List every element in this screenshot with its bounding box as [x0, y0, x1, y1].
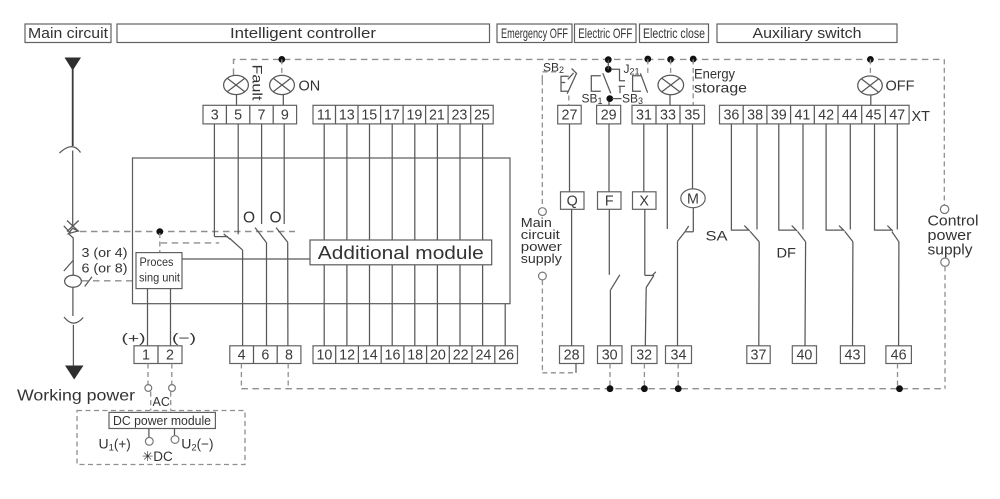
- terminal 27: [558, 105, 582, 124]
- wire: 34 to bus: [677, 364, 679, 389]
- dashed stub under 46: [897, 364, 899, 389]
- drawout contact lower arc: [64, 317, 83, 323]
- svg-text:8: 8: [285, 347, 293, 363]
- terminal 43: [840, 346, 864, 364]
- terminal strip 36-47: [720, 105, 910, 124]
- svg-text:F: F: [605, 194, 614, 210]
- svg-text:Q: Q: [567, 194, 578, 210]
- svg-text:Electric close: Electric close: [643, 25, 705, 41]
- svg-text:SA: SA: [706, 228, 729, 244]
- internal switch O2 (7 to 6): [255, 228, 266, 346]
- svg-text:supply: supply: [521, 252, 563, 266]
- svg-text:Auxiliary switch: Auxiliary switch: [753, 25, 862, 42]
- wire: breaker to CT: [72, 238, 74, 276]
- wire: Fault lamp to terminal 5: [236, 95, 238, 106]
- mechanical linkage dashed from breaker: [80, 231, 295, 233]
- svg-text:43: 43: [845, 347, 861, 363]
- dashed stub under terminal 4: [240, 364, 242, 389]
- open terminal circle lower: [941, 258, 949, 266]
- coil F: [598, 192, 622, 210]
- CT slash: [85, 277, 92, 287]
- node dot SB1 top (lower): [605, 66, 612, 73]
- terminal 29: [597, 105, 621, 124]
- svg-text:4: 4: [238, 347, 246, 363]
- svg-text:35: 35: [684, 107, 700, 123]
- open circle U2: [171, 436, 179, 444]
- wire: processing unit to terminal 1: [147, 289, 149, 346]
- svg-text:23: 23: [451, 107, 467, 123]
- node dot above energy lamp: [667, 56, 674, 63]
- svg-text:45: 45: [866, 107, 882, 123]
- circuit breaker symbol: [64, 221, 79, 239]
- outgoing arrow: [65, 366, 84, 380]
- wire: terminal 1 down: [147, 364, 149, 385]
- wire: Q to terminal 28: [571, 209, 573, 345]
- terminal 46: [886, 346, 912, 364]
- svg-text:33: 33: [660, 107, 676, 123]
- dashed riser lower: [944, 266, 946, 388]
- processing unit box: [136, 253, 182, 289]
- svg-text:(−): (−): [172, 331, 196, 346]
- motor M: [681, 189, 705, 208]
- svg-text:SB2: SB2: [543, 61, 564, 76]
- open terminal circle upper: [539, 208, 547, 216]
- stub to U2: [174, 429, 176, 436]
- dashed corner to 28: [542, 372, 576, 374]
- lamp ON: [270, 75, 295, 94]
- dashed stub under terminal 8: [287, 364, 289, 389]
- stub to U1: [148, 429, 150, 438]
- wire: contact to terminal 30: [609, 290, 611, 346]
- terminal 40: [792, 346, 816, 364]
- wire: terminal 27 to Q: [569, 124, 571, 192]
- open terminal circle upper: [940, 205, 948, 213]
- header box: Electric OFF: [575, 24, 637, 43]
- svg-text:39: 39: [771, 107, 787, 123]
- moving contact: [750, 231, 759, 241]
- open terminal circle lower: [539, 272, 547, 280]
- node dot above ON lamp: [278, 56, 285, 63]
- svg-text:47: 47: [889, 107, 905, 123]
- dashed drop to processing unit: [159, 233, 161, 253]
- wire: OFF lamp to terminal 45: [870, 95, 872, 105]
- dashed drop to ON lamp: [281, 59, 283, 75]
- wire: terminal 3 down: [213, 124, 215, 237]
- dashed linkage segment 2: [161, 242, 220, 244]
- wire: to outgoing arrow: [72, 325, 74, 366]
- header box: Main circuit: [25, 24, 111, 43]
- dashed drop SB2 to terminal 27: [568, 96, 570, 106]
- svg-text:9: 9: [281, 107, 289, 123]
- sensor slash: [64, 260, 74, 271]
- wire: to terminal 37: [758, 242, 760, 346]
- dashed corner at SB2: [542, 72, 556, 80]
- svg-text:29: 29: [601, 107, 617, 123]
- svg-text:12: 12: [339, 347, 355, 363]
- wire: terminal 26 stub: [504, 304, 506, 346]
- wire: processing unit to additional module: [182, 258, 310, 260]
- wire: 30 to bus: [609, 364, 611, 389]
- svg-text:27: 27: [562, 107, 578, 123]
- SECTION: auxiliary switch group 1 (36/38 - 37): [731, 124, 759, 346]
- tie line to SB3 bottom: [612, 98, 622, 100]
- svg-text:21: 21: [429, 107, 445, 123]
- coil X: [633, 192, 657, 210]
- svg-text:28: 28: [564, 347, 580, 363]
- svg-text:6 (or 8): 6 (or 8): [82, 261, 128, 276]
- svg-text:30: 30: [602, 347, 618, 363]
- dashed drop to energy lamp: [670, 59, 672, 76]
- pushbutton SB1: [591, 73, 611, 93]
- svg-text:ON: ON: [299, 79, 321, 95]
- svg-text:24: 24: [475, 347, 491, 363]
- drop to OFF lamp: [869, 59, 871, 76]
- svg-text:XT: XT: [912, 109, 931, 125]
- svg-text:J21: J21: [624, 62, 640, 77]
- svg-text:11: 11: [317, 107, 332, 123]
- svg-text:16: 16: [385, 347, 401, 363]
- additional module label box: [310, 240, 492, 265]
- pushbutton SB3: [633, 73, 648, 92]
- wire: terminal 33 stub: [666, 124, 668, 229]
- wire: main circuit to breaker: [72, 151, 74, 227]
- svg-text:46: 46: [891, 347, 907, 363]
- wire: ON lamp to terminal 9: [282, 95, 284, 106]
- svg-text:10: 10: [316, 347, 332, 363]
- terminal 30: [598, 346, 623, 364]
- terminal 37: [747, 346, 770, 364]
- wire: terminal 31 to X: [643, 124, 645, 192]
- link between bus and SB1 dots: [607, 60, 609, 70]
- wire: terminal 35 to motor: [692, 124, 694, 189]
- svg-text:✳DC: ✳DC: [142, 449, 173, 464]
- auxiliary switch group 2 (39/41 - 40): [779, 124, 806, 346]
- wire: terminal 2 down: [171, 364, 173, 385]
- terminal strip 4 6 8: [230, 346, 301, 364]
- svg-text:Intelligent controller: Intelligent controller: [230, 25, 376, 42]
- dashed stub to control power supply: [943, 59, 945, 206]
- svg-text:DF: DF: [777, 245, 797, 261]
- svg-text:M: M: [687, 191, 699, 207]
- terminal strip 10-26: [313, 346, 518, 364]
- svg-text:storage: storage: [694, 80, 747, 96]
- wire: energy lamp to terminal 33: [669, 95, 671, 106]
- node dot above OFF lamp: [867, 56, 874, 63]
- svg-text:Emergency OFF: Emergency OFF: [501, 25, 568, 41]
- svg-text:7: 7: [258, 107, 266, 123]
- relay contact J21: [611, 69, 625, 93]
- svg-text:1: 1: [142, 347, 150, 363]
- wire: contact to terminal 34: [677, 241, 679, 345]
- svg-text:37: 37: [751, 347, 767, 363]
- wire: terminal 9 down: [283, 124, 285, 224]
- node dot above SB3: [644, 56, 651, 63]
- svg-text:DC power module: DC power module: [113, 414, 211, 428]
- wire: X down to contact: [644, 209, 646, 275]
- svg-text:22: 22: [453, 347, 469, 363]
- svg-text:3 (or 4): 3 (or 4): [82, 245, 128, 260]
- svg-text:Fault: Fault: [250, 65, 266, 101]
- dashed drop to SB3: [647, 59, 649, 74]
- svg-text:Working power: Working power: [17, 388, 136, 405]
- wire: CT down: [72, 287, 74, 316]
- dashed stub AC left: [150, 392, 152, 411]
- terminal strip 31 33 35: [632, 105, 705, 124]
- svg-text:14: 14: [362, 347, 378, 363]
- svg-text:supply: supply: [928, 243, 974, 259]
- open circle U1: [145, 437, 153, 445]
- drawout contact upper arc: [60, 147, 81, 153]
- node dot above SB1: [605, 56, 612, 63]
- terminal strip 3 5 7 9: [203, 105, 297, 124]
- stub up to terminal 28: [575, 364, 577, 373]
- svg-text:36: 36: [723, 107, 739, 123]
- dashed riser: [541, 80, 543, 208]
- contact under X: [645, 272, 656, 288]
- lamp Fault: [224, 75, 249, 94]
- wires: terminals 11-25 through module to 10-24: [324, 124, 482, 346]
- header box: Auxiliary switch: [717, 24, 897, 43]
- svg-text:U2(−): U2(−): [181, 436, 213, 454]
- pushbutton SB2: [561, 69, 577, 94]
- main circuit incoming arrow: [65, 58, 82, 71]
- open circle under 2: [169, 385, 176, 392]
- wire: terminal 5 down: [237, 124, 239, 234]
- lamp OFF: [858, 76, 883, 95]
- svg-text:Electric OFF: Electric OFF: [578, 25, 632, 41]
- node dot on trip linkage: [156, 228, 163, 235]
- module box outline: [133, 158, 511, 304]
- dashed stub AC right: [170, 392, 172, 411]
- svg-text:SB3: SB3: [622, 91, 643, 106]
- svg-text:5: 5: [234, 107, 242, 123]
- terminal 32: [632, 346, 658, 364]
- dashed drop to terminal 35: [692, 59, 694, 105]
- svg-text:O: O: [270, 210, 282, 227]
- terminal strip 11-25: [313, 105, 493, 124]
- DC power module dashed enclosure: [77, 411, 245, 465]
- wire: motor down: [692, 208, 694, 232]
- header box: Electric close: [640, 24, 709, 43]
- svg-text:AC: AC: [153, 395, 170, 409]
- DC power module box: [109, 412, 215, 428]
- svg-text:17: 17: [384, 107, 400, 123]
- contact under F: [610, 275, 619, 290]
- node dot under 46: [896, 385, 903, 392]
- svg-text:3: 3: [211, 107, 219, 123]
- svg-text:26: 26: [498, 347, 514, 363]
- wire: contact to terminal 32: [644, 288, 647, 346]
- svg-text:41: 41: [794, 107, 810, 123]
- internal switch O3 (9 to 8): [276, 228, 288, 346]
- node dot under 34: [675, 385, 682, 392]
- wire: terminal 7 down: [261, 124, 263, 224]
- wire: F down to contact: [608, 209, 610, 274]
- svg-text:20: 20: [430, 347, 446, 363]
- open circle under 1: [145, 385, 152, 392]
- wire: main circuit upper: [72, 69, 74, 146]
- svg-text:2: 2: [166, 347, 174, 363]
- node dot under 32: [641, 385, 648, 392]
- wire: terminal 29 to F: [608, 124, 610, 192]
- contact under motor: [678, 226, 694, 241]
- svg-text:19: 19: [406, 107, 422, 123]
- internal switch O1 (3 to 4): [214, 234, 242, 346]
- svg-text:6: 6: [261, 347, 269, 363]
- current transformer: [65, 275, 82, 287]
- dashed down to corner: [541, 280, 543, 373]
- header box: Emergency OFF: [497, 24, 572, 43]
- fixed contact tick: [744, 226, 749, 231]
- lamp Energy storage: [658, 75, 684, 94]
- wire: processing unit to terminal 2: [170, 289, 172, 346]
- svg-text:44: 44: [842, 107, 858, 123]
- bottom dashed bus line: [241, 388, 945, 390]
- svg-text:42: 42: [818, 107, 834, 123]
- svg-text:X: X: [639, 194, 649, 210]
- svg-text:32: 32: [636, 347, 652, 363]
- svg-text:sing unit: sing unit: [139, 272, 181, 284]
- top dashed control bus: [234, 59, 945, 75]
- svg-text:13: 13: [339, 107, 355, 123]
- wire: 32 to bus: [643, 364, 645, 389]
- dashed link CT to processing unit: [82, 280, 136, 282]
- svg-text:U1(+): U1(+): [99, 436, 131, 454]
- svg-text:Proces: Proces: [140, 257, 174, 269]
- svg-text:O: O: [243, 210, 255, 227]
- terminal strip 1 2: [134, 346, 182, 364]
- svg-text:Main circuit: Main circuit: [28, 25, 109, 42]
- svg-text:25: 25: [474, 107, 490, 123]
- svg-text:40: 40: [796, 347, 812, 363]
- terminal 28: [560, 346, 584, 364]
- svg-text:34: 34: [671, 347, 687, 363]
- header box: Intelligent controller: [117, 24, 490, 43]
- svg-text:18: 18: [407, 347, 423, 363]
- coil Q: [561, 192, 585, 210]
- svg-text:Additional module: Additional module: [318, 243, 484, 263]
- node dot under 30: [607, 385, 614, 392]
- wire: terminal 29 up node: [608, 99, 610, 106]
- svg-text:15: 15: [361, 107, 377, 123]
- svg-text:SB1: SB1: [582, 91, 603, 106]
- wire: terminal 36 down with bend: [731, 124, 748, 230]
- svg-text:38: 38: [747, 107, 763, 123]
- auxiliary switch group 3 (42/44 - 43): [826, 124, 853, 346]
- node dot above terminal 35: [690, 56, 697, 63]
- svg-text:OFF: OFF: [886, 79, 915, 95]
- svg-text:(+): (+): [122, 331, 146, 346]
- terminal 34: [666, 346, 692, 364]
- svg-text:31: 31: [636, 107, 652, 123]
- node dot above terminal 29: [606, 95, 613, 102]
- auxiliary switch group 4 (45/47 - 46): [875, 124, 899, 346]
- wire: terminal 38 down: [756, 124, 758, 230]
